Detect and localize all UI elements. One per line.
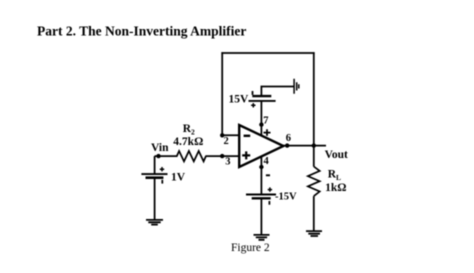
svg-text:4: 4 <box>264 156 270 167</box>
op-amp supply plus symbol <box>264 129 271 136</box>
op-amp U1 <box>239 125 283 167</box>
battery V+ 15V long plate <box>249 100 276 102</box>
svg-text:3: 3 <box>225 156 230 167</box>
svg-text:Vin: Vin <box>151 142 169 154</box>
wire 15V battery top to sideways ground <box>261 87 293 97</box>
node pin3 dot <box>220 154 224 158</box>
wire vin battery to ground <box>154 178 156 220</box>
battery V- minus tick <box>268 201 270 205</box>
svg-text:1V: 1V <box>171 172 186 184</box>
battery V+ minus tick <box>252 91 254 95</box>
ground below -15V battery <box>254 235 270 240</box>
op-amp inverting input minus symbol <box>244 135 251 137</box>
wire pin4 <box>260 157 262 195</box>
svg-text:2: 2 <box>224 136 229 147</box>
wire input left <box>155 155 178 157</box>
wire feedback right <box>313 52 315 166</box>
wire pin7 <box>260 101 262 136</box>
node Vin dot <box>156 154 160 158</box>
wire -15V battery to ground <box>260 198 262 235</box>
resistor RL <box>308 167 320 197</box>
wire RL to ground <box>313 196 315 231</box>
battery V+ 15V short plate <box>252 95 271 97</box>
node pin4 dot <box>259 165 263 169</box>
svg-text:1kΩ: 1kΩ <box>325 182 346 194</box>
battery V1 1V long plate <box>141 173 167 175</box>
svg-text:6: 6 <box>286 133 291 144</box>
battery V+ plus mark <box>251 103 255 107</box>
wire pin2 <box>222 134 239 136</box>
battery V1 plus mark <box>160 167 164 171</box>
wire input right <box>205 155 239 157</box>
svg-text:Part 2. The Non-Inverting Ampl: Part 2. The Non-Inverting Amplifier <box>37 24 246 39</box>
battery V1 minus tick <box>161 180 163 184</box>
ground sideways right of 15V battery <box>294 79 299 94</box>
node pin7 dot <box>259 122 263 126</box>
node Vout junction dot <box>312 143 316 147</box>
battery V- plus mark <box>268 187 272 191</box>
battery V- -15V short plate <box>252 197 271 199</box>
battery V1 1V short plate <box>146 176 164 179</box>
battery V- -15V long plate <box>246 194 276 196</box>
svg-text:Figure 2: Figure 2 <box>231 242 270 254</box>
wire output <box>283 145 327 147</box>
svg-text:Vout: Vout <box>325 149 348 161</box>
op-amp non-inverting input plus symbol <box>242 151 250 159</box>
op-amp supply minus symbol <box>266 174 270 176</box>
node pin2 corner dot <box>220 133 224 137</box>
resistor R2 <box>177 151 206 161</box>
node pin6 output dot <box>285 143 289 147</box>
ground below Vin battery <box>146 220 163 225</box>
wire feedback top <box>221 52 314 54</box>
wire feedback left <box>221 52 223 135</box>
svg-text:15V: 15V <box>229 94 250 106</box>
wire vin vertical <box>154 156 156 174</box>
ground below RL <box>306 231 322 236</box>
svg-text:4.7kΩ: 4.7kΩ <box>173 136 203 148</box>
svg-text:7: 7 <box>263 115 268 126</box>
svg-text:-15V: -15V <box>275 192 297 203</box>
